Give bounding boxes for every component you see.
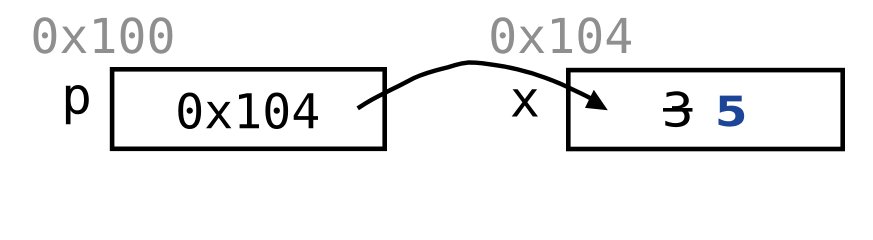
old value 3 (crossed out) xyxy=(665,91,689,127)
arrowhead xyxy=(585,90,608,111)
strikethrough on 3 xyxy=(663,108,693,112)
value 0x104 inside box p xyxy=(178,93,318,130)
variable label x xyxy=(512,89,538,116)
address label 0x100 xyxy=(34,17,173,54)
variable label p xyxy=(66,85,89,124)
new value 5 xyxy=(719,96,745,127)
pointer arrow curve from p value to x box xyxy=(358,63,601,109)
box x (variable x cell) xyxy=(568,70,842,149)
box p (variable p cell) xyxy=(112,69,385,149)
address label 0x104 xyxy=(491,17,631,54)
